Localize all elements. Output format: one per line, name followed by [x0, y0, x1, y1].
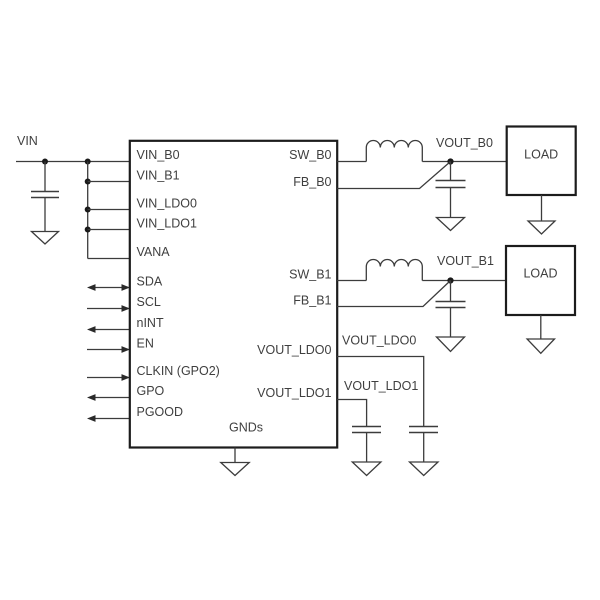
wire to VIN_LDO1 pin	[88, 229, 130, 231]
inductor L1	[366, 260, 422, 281]
wire VIN input rail	[16, 161, 130, 163]
svg-text:VOUT_LDO0: VOUT_LDO0	[342, 334, 416, 348]
wire to VIN_B1 pin	[88, 181, 130, 183]
arrow nINT output	[87, 326, 130, 333]
svg-text:SCL: SCL	[137, 295, 161, 309]
capacitor Cout0 bottom stem	[450, 188, 452, 218]
svg-text:VIN: VIN	[17, 134, 38, 148]
svg-text:VIN_B1: VIN_B1	[137, 169, 180, 183]
capacitor C_LDO0 plates	[409, 427, 438, 433]
wire VOUT_LDO1	[337, 400, 367, 427]
ground under LOAD 1	[528, 195, 555, 234]
wire VIN vertical bus	[87, 162, 89, 259]
arrow CLKIN input	[87, 374, 130, 381]
svg-text:VOUT_LDO1: VOUT_LDO1	[257, 386, 331, 400]
svg-text:EN: EN	[137, 337, 154, 351]
capacitor C_LDO1 plates	[352, 427, 381, 433]
node VOUT_B0	[447, 158, 453, 164]
op-amp U1 PMIC body	[130, 141, 337, 448]
wire FB_B1	[337, 281, 451, 307]
svg-text:VOUT_B0: VOUT_B0	[436, 136, 493, 150]
ground under IC GNDs pin	[221, 448, 249, 476]
svg-text:LOAD: LOAD	[524, 148, 558, 162]
svg-text:GNDs: GNDs	[229, 421, 263, 435]
svg-text:SW_B1: SW_B1	[289, 268, 331, 282]
wire inductor L1 to LOAD	[422, 280, 506, 282]
arrow SCL input	[87, 305, 130, 312]
svg-text:VOUT_LDO0: VOUT_LDO0	[257, 343, 331, 357]
svg-text:SW_B0: SW_B0	[289, 148, 331, 162]
svg-text:CLKIN (GPO2): CLKIN (GPO2)	[137, 364, 220, 378]
wire SW_B1 to inductor	[337, 280, 366, 282]
node junction VIN bus	[85, 159, 91, 165]
node junction VIN_LDO1	[85, 227, 91, 233]
svg-text:VIN_LDO1: VIN_LDO1	[137, 217, 197, 231]
wire VOUT_LDO0	[337, 357, 424, 427]
capacitor Cout1 plates	[436, 302, 466, 308]
svg-text:VOUT_LDO1: VOUT_LDO1	[344, 379, 418, 393]
svg-text:nINT: nINT	[137, 316, 164, 330]
svg-text:FB_B0: FB_B0	[293, 175, 331, 189]
wire SW_B0 to inductor	[337, 161, 366, 163]
svg-text:LOAD: LOAD	[523, 267, 557, 281]
capacitor Cin bottom stem	[44, 198, 46, 232]
wire to VANA pin	[88, 258, 130, 260]
arrow SDA bidirectional	[87, 284, 130, 291]
svg-text:GPO: GPO	[137, 384, 165, 398]
capacitor Cout1 bottom stem	[450, 308, 452, 337]
capacitor C_LDO1 bottom stem	[366, 433, 368, 462]
capacitor C_LDO0 bottom stem	[423, 433, 425, 462]
svg-text:VIN_B0: VIN_B0	[137, 148, 180, 162]
capacitor Cin plates	[31, 192, 59, 198]
node VOUT_B1	[447, 277, 453, 283]
svg-text:VANA: VANA	[137, 245, 171, 259]
node junction VIN_LDO0	[85, 207, 91, 213]
capacitor Cin top stem	[44, 162, 46, 192]
arrow EN input	[87, 346, 130, 353]
capacitor Cout1 top stem	[450, 281, 452, 302]
ground under Cout1	[437, 337, 465, 352]
ground under C_LDO1	[352, 462, 381, 476]
ground under LOAD 2	[527, 315, 554, 353]
svg-text:VIN_LDO0: VIN_LDO0	[137, 197, 197, 211]
svg-text:PGOOD: PGOOD	[137, 405, 184, 419]
LOAD box 1	[507, 127, 576, 196]
wire FB_B0	[337, 162, 451, 189]
svg-text:SDA: SDA	[137, 275, 163, 289]
capacitor Cout0 top stem	[450, 162, 452, 181]
LOAD box 2	[506, 246, 575, 315]
arrow PGOOD output	[87, 415, 130, 422]
ground under Cin	[32, 232, 59, 245]
wire to VIN_LDO0 pin	[88, 209, 130, 211]
ground under Cout0	[437, 218, 465, 231]
inductor L0	[366, 141, 422, 162]
arrow GPO output	[87, 394, 130, 401]
capacitor Cout0 plates	[436, 181, 466, 188]
node junction VIN/Cin	[42, 159, 48, 165]
node junction VIN_B1	[85, 179, 91, 185]
wire inductor L0 to LOAD	[422, 161, 506, 163]
svg-text:VOUT_B1: VOUT_B1	[437, 254, 494, 268]
svg-text:FB_B1: FB_B1	[293, 294, 331, 308]
ground under C_LDO0	[410, 462, 439, 476]
